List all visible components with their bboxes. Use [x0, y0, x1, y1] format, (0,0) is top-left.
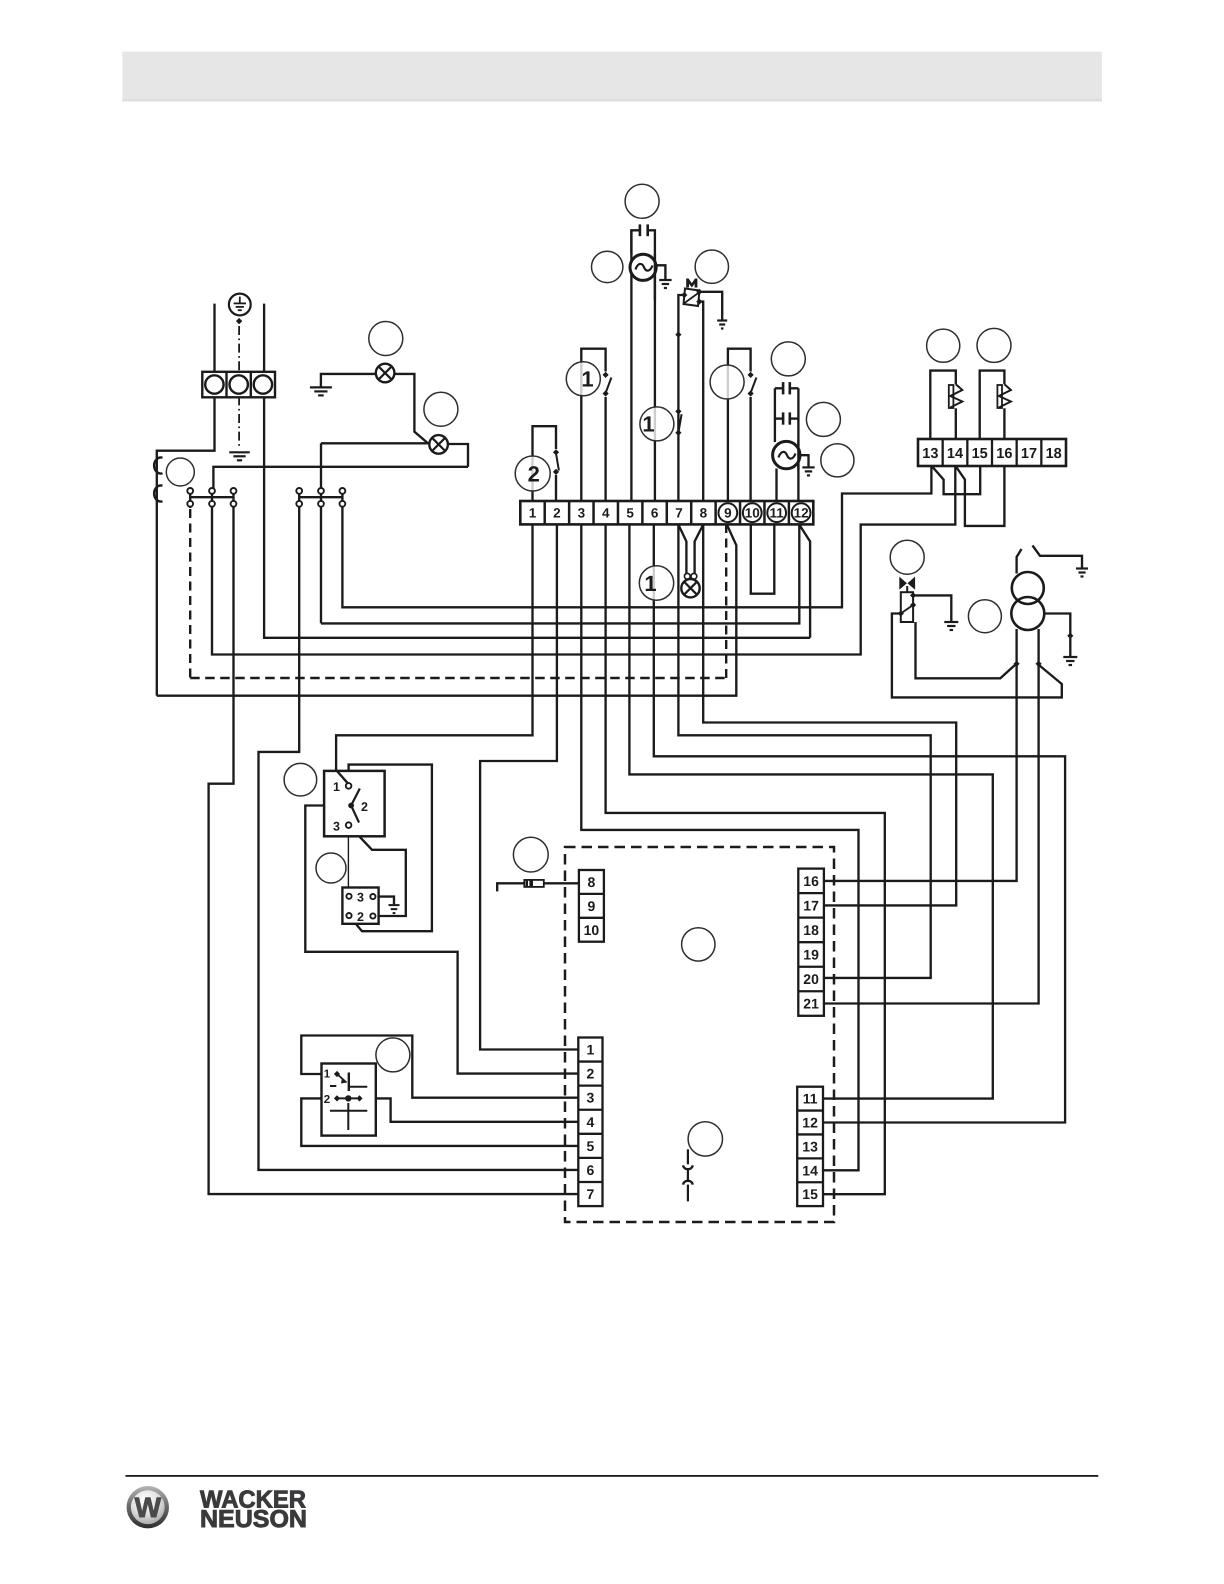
svg-text:2: 2: [528, 462, 540, 487]
svg-text:15: 15: [972, 446, 988, 462]
svg-text:3: 3: [587, 1090, 595, 1106]
svg-text:1: 1: [333, 780, 340, 794]
svg-text:17: 17: [1021, 446, 1037, 462]
svg-text:2: 2: [587, 1066, 595, 1082]
svg-text:13: 13: [802, 1138, 818, 1154]
svg-text:11: 11: [803, 1091, 818, 1107]
svg-text:13: 13: [922, 446, 938, 462]
svg-text:2: 2: [324, 1094, 330, 1106]
svg-text:1: 1: [529, 506, 537, 521]
svg-text:3: 3: [333, 820, 340, 834]
svg-text:15: 15: [802, 1186, 818, 1202]
svg-text:W: W: [135, 1492, 162, 1523]
svg-text:7: 7: [675, 506, 683, 521]
svg-text:2: 2: [357, 910, 364, 924]
svg-text:5: 5: [626, 506, 634, 521]
svg-text:9: 9: [588, 898, 596, 914]
svg-text:14: 14: [802, 1162, 818, 1178]
svg-text:2: 2: [553, 506, 561, 521]
svg-text:14: 14: [947, 446, 963, 462]
svg-text:4: 4: [587, 1114, 595, 1130]
svg-text:12: 12: [794, 506, 809, 521]
svg-text:12: 12: [802, 1115, 818, 1131]
svg-text:18: 18: [803, 922, 819, 938]
svg-text:3: 3: [357, 891, 364, 905]
svg-text:16: 16: [996, 446, 1012, 462]
svg-text:8: 8: [700, 506, 708, 521]
svg-text:2: 2: [361, 800, 368, 814]
svg-text:16: 16: [803, 873, 819, 889]
svg-text:1: 1: [587, 1042, 595, 1058]
svg-text:18: 18: [1046, 446, 1062, 462]
svg-text:NEUSON: NEUSON: [200, 1506, 307, 1533]
svg-text:11: 11: [770, 506, 785, 521]
svg-text:8: 8: [588, 874, 596, 890]
svg-text:10: 10: [584, 922, 600, 938]
svg-text:6: 6: [651, 506, 659, 521]
svg-text:6: 6: [587, 1162, 595, 1178]
svg-text:1: 1: [642, 412, 654, 437]
svg-text:19: 19: [803, 946, 819, 962]
svg-text:7: 7: [587, 1186, 595, 1202]
svg-text:9: 9: [724, 506, 732, 521]
svg-text:1: 1: [644, 571, 656, 596]
svg-text:17: 17: [803, 897, 819, 913]
svg-text:10: 10: [745, 506, 760, 521]
svg-text:20: 20: [803, 971, 819, 987]
svg-text:5: 5: [587, 1138, 595, 1154]
svg-text:4: 4: [602, 506, 610, 521]
svg-text:3: 3: [578, 506, 586, 521]
svg-text:1: 1: [581, 367, 593, 392]
svg-text:1: 1: [324, 1069, 331, 1081]
svg-text:21: 21: [803, 996, 819, 1012]
